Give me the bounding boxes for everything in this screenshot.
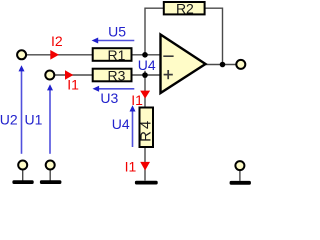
svg-text:R3: R3 (108, 67, 126, 83)
svg-text:U4: U4 (138, 57, 156, 73)
svg-text:U2: U2 (0, 112, 18, 128)
svg-text:U5: U5 (108, 24, 126, 40)
input terminal 2 (45, 71, 54, 80)
ground symbol right (230, 181, 251, 185)
resistor R1 (93, 47, 132, 63)
voltage arrow U4 (vertical, across R4) (130, 105, 136, 147)
node A junction dot (inverting input) (142, 52, 148, 58)
label U4 (node, with background) (138, 57, 156, 73)
wire output (206, 64, 236, 66)
ground terminal right (235, 161, 244, 170)
input terminal 1 (17, 50, 26, 59)
voltage arrow U2 (vertical) (19, 65, 25, 154)
svg-text:U4: U4 (112, 116, 130, 132)
voltage arrow U1 (vertical) (47, 84, 53, 154)
voltage arrow U5 (92, 38, 135, 44)
output terminal (236, 60, 245, 69)
svg-text:R2: R2 (176, 0, 194, 16)
svg-text:U3: U3 (100, 90, 118, 106)
svg-text:U1: U1 (25, 112, 43, 128)
ground terminal 1 (18, 161, 27, 170)
wire node column down to R4 (144, 55, 146, 108)
op-amp U1 triangle (161, 35, 206, 94)
svg-text:I2: I2 (51, 33, 63, 49)
svg-text:R1: R1 (108, 47, 126, 63)
voltage arrow U3 (93, 86, 135, 92)
wire stem ground terminal 1 (22, 170, 24, 181)
current arrow I1 below R4 (140, 162, 150, 171)
wire stem ground terminal right (239, 171, 241, 181)
wire feedback right: R2 to output node (205, 8, 223, 64)
resistor R4 (vertical) (138, 108, 155, 148)
output node junction dot (220, 62, 226, 68)
svg-text:I1: I1 (131, 92, 143, 108)
wire row2: terminal2 to R3 (55, 74, 93, 76)
resistor R2 (164, 0, 205, 16)
wire row2: R3 to op-amp plus input (132, 74, 161, 76)
op-amp plus sign (164, 70, 173, 79)
svg-text:I1: I1 (67, 77, 79, 93)
ground symbol middle (135, 181, 158, 185)
wire feedback left vertical + top (145, 8, 164, 55)
wire row1: R1 to op-amp minus input (132, 54, 161, 56)
current arrow I2 (50, 50, 59, 60)
resistor R3 (93, 67, 132, 83)
ground terminal 2 (46, 161, 55, 170)
op-amp minus sign (163, 55, 173, 57)
svg-text:4: 4 (138, 121, 155, 129)
wire stem ground terminal 2 (49, 170, 51, 181)
current arrow I1 (row2) (65, 70, 73, 80)
wire row1: terminal1 to R1 (27, 54, 93, 56)
current arrow I1 into R4 (140, 91, 150, 99)
svg-text:R: R (138, 131, 155, 142)
node B junction dot (non-inverting input) (142, 72, 148, 78)
ground symbol 1 (12, 180, 33, 184)
svg-text:I1: I1 (125, 159, 137, 175)
wire R4 bottom to ground (144, 147, 146, 181)
ground symbol 2 (40, 180, 62, 184)
